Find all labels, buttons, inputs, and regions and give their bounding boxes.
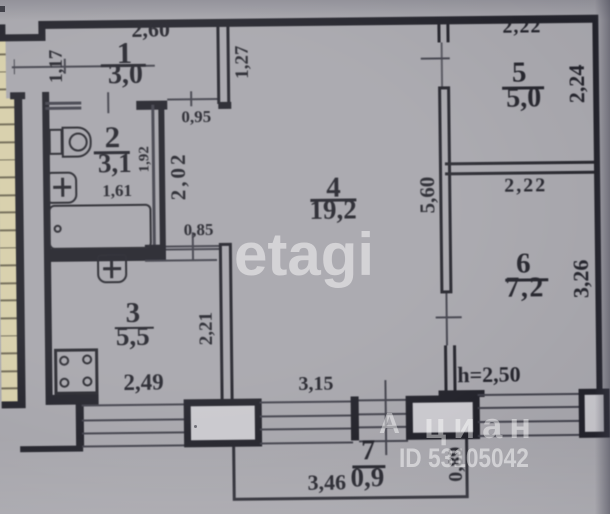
bathtub drain xyxy=(54,225,62,233)
room1/room4 partition line b xyxy=(226,26,230,104)
kitchen door threshold double thin lines xyxy=(166,244,219,247)
labels room 1 xyxy=(131,19,170,41)
room4 | room5/6 partition: top stub xyxy=(437,17,440,42)
stairwell wall vertical xyxy=(14,95,25,401)
bathroom right wall xyxy=(151,105,155,247)
watermark etagi xyxy=(234,225,374,285)
room4 window glazing lines (right of mini pier) xyxy=(359,399,408,402)
vertical dim line near balcony labels xyxy=(384,380,387,455)
staircase beige strip (narrow landing part) xyxy=(0,40,6,98)
bathroom door tick xyxy=(107,92,109,113)
bathroom right wall foot xyxy=(145,245,166,251)
labels room 4 xyxy=(326,174,341,203)
thin door line across room5 gap xyxy=(440,42,442,86)
top-left edge stub xyxy=(0,24,6,41)
0,85 tick xyxy=(192,232,194,261)
room5/room6 divider double line xyxy=(445,161,594,166)
toilet tank xyxy=(49,129,63,155)
room1/room4 partition line a xyxy=(216,26,220,104)
entrance dimension line + ticks xyxy=(12,65,155,68)
watermark cyan logo xyxy=(379,410,400,439)
wash sink xyxy=(48,171,78,203)
room4 window glazing lines (left of mini pier) xyxy=(260,400,353,403)
room1 bottom thin double wall (left of bath door) xyxy=(45,102,81,105)
top wall xyxy=(38,14,598,29)
partition middle segment xyxy=(438,86,443,293)
photo corner artifact xyxy=(0,6,5,12)
staircase beige strip (main flight) xyxy=(0,98,18,401)
0,95 dim line + tick xyxy=(167,98,217,100)
left wall main segment xyxy=(42,92,53,405)
stair treads xyxy=(0,0,607,3)
kitchen/room4 partition line a xyxy=(218,243,223,401)
kitchen/room4 partition line b xyxy=(228,243,233,401)
labels balcony xyxy=(361,437,375,465)
left wall upper segment xyxy=(38,20,45,41)
thin line across lower door gap xyxy=(445,293,448,345)
bottom-right corner pier xyxy=(579,389,610,438)
partition door ticks xyxy=(421,57,450,59)
toilet bowl xyxy=(62,126,92,157)
room6 window glazing lines xyxy=(478,392,581,395)
partition foot xyxy=(218,102,231,109)
room1 bottom thick wall piece xyxy=(136,101,167,110)
stairwell wall top cap xyxy=(10,92,25,99)
right wall xyxy=(592,16,602,390)
labels room 3 xyxy=(125,299,140,328)
toilet circle xyxy=(68,132,87,151)
stove xyxy=(54,348,99,395)
labels room 5 xyxy=(502,16,541,36)
bathtub xyxy=(48,204,151,250)
balcony outline xyxy=(232,447,236,501)
top-left notch horizontal wall xyxy=(0,34,45,42)
wall chunk joining partition to balcony pier xyxy=(439,390,485,398)
kitchen sink xyxy=(96,254,126,283)
balcony-side window pier xyxy=(406,395,480,440)
bathroom bottom wall xyxy=(47,248,166,262)
watermark id xyxy=(399,445,529,472)
stairwell wall bottom cap xyxy=(2,401,26,409)
labels room 6 xyxy=(504,175,547,195)
bottom-left corner: kitchen inner wall xyxy=(46,394,99,405)
middle window pier xyxy=(184,399,263,448)
mini pier xyxy=(351,396,359,440)
kitchen window glazing lines xyxy=(82,403,186,406)
partition lower segment xyxy=(444,345,448,397)
labels room 2 xyxy=(104,121,120,152)
